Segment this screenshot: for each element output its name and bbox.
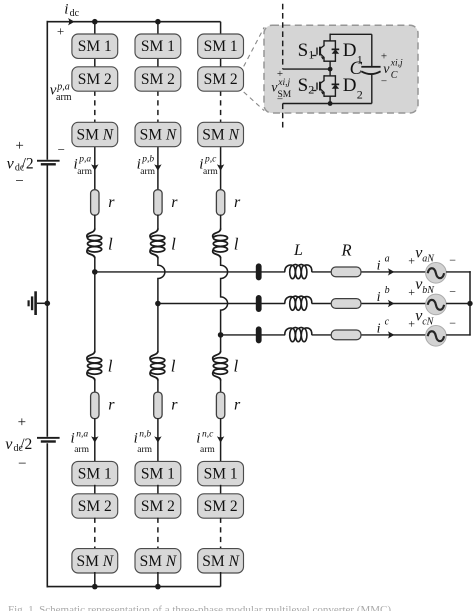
wire S2 bottom to SM minus — [329, 96, 331, 104]
current arrow i^c — [388, 331, 395, 338]
svg-text:SM 2: SM 2 — [141, 71, 175, 88]
svg-text:i: i — [377, 258, 381, 273]
submodule SM1 lower arm a — [72, 461, 118, 485]
submodule SM1 upper arm b — [135, 34, 181, 58]
label i_arm n,b — [134, 430, 153, 455]
wire left DC rail middle segment — [46, 166, 48, 437]
svg-text:p,c: p,c — [204, 154, 217, 164]
wire bottom DC bus — [47, 586, 221, 588]
AC source v_aN — [426, 263, 447, 284]
label D2 — [343, 75, 363, 102]
AC source v_cN — [426, 326, 447, 347]
wire resistor to inductor upper arm b — [157, 215, 159, 229]
svg-text:r: r — [171, 194, 178, 211]
svg-text:+: + — [57, 23, 64, 38]
current arrow i^a — [388, 268, 395, 275]
wire upper arm b to node b with hop over phase a — [158, 258, 165, 304]
svg-text:−: − — [381, 76, 387, 88]
submodule SMN upper arm a — [72, 122, 118, 146]
svg-text:r: r — [108, 397, 115, 414]
submodule SM2 upper arm c — [198, 67, 244, 91]
inset submodule detail box — [264, 25, 418, 113]
wire dashed SM2-SMN upper arm a — [94, 91, 96, 124]
submodule SMN lower arm b — [135, 549, 181, 573]
svg-text:i: i — [64, 2, 68, 18]
svg-text:/2: /2 — [20, 436, 32, 453]
svg-text:−: − — [449, 316, 456, 330]
wire SM1-SM2 upper arm b — [157, 57, 159, 67]
wire inductor to node a upper arm a — [94, 258, 96, 272]
inductor l upper arm c — [213, 229, 228, 259]
junction SM bottom — [328, 101, 333, 106]
transistor S2 with diode D2 — [312, 75, 339, 97]
label i^a — [377, 254, 390, 274]
wire dashed SM2-SMN lower arm b — [157, 518, 159, 550]
wire right AC rail — [469, 271, 471, 336]
svg-text:i: i — [134, 430, 138, 446]
resistor r lower arm b — [154, 392, 162, 419]
svg-text:+: + — [408, 316, 415, 330]
wire phase b to right rail — [446, 303, 471, 305]
svg-text:i: i — [377, 321, 381, 336]
svg-text:L: L — [293, 242, 303, 259]
svg-text:l: l — [108, 234, 113, 253]
svg-text:−: − — [58, 142, 65, 157]
wire SMN to bottom bus lower arm c — [220, 572, 222, 587]
svg-text:arm: arm — [140, 167, 155, 177]
resistor r lower arm a — [91, 392, 99, 419]
current arrow i_arm upper a — [91, 164, 98, 171]
wire capacitor top rail — [330, 33, 372, 35]
svg-text:a: a — [385, 254, 390, 265]
svg-text:S: S — [298, 75, 309, 96]
junction SM midpoint — [328, 67, 333, 72]
wire phase b line left part — [158, 303, 285, 305]
svg-text:1: 1 — [308, 48, 314, 62]
svg-text:n,c: n,c — [202, 430, 214, 440]
wire phase b line middle part — [312, 303, 427, 305]
transistor S1 with diode D1 — [312, 40, 339, 62]
svg-text:arm: arm — [203, 167, 218, 177]
svg-text:arm: arm — [137, 445, 152, 455]
submodule SM1 lower arm c — [198, 461, 244, 485]
wire node to inductor lower arm c — [220, 335, 222, 351]
callout dashed line upper — [244, 27, 265, 66]
resistor R phase b — [331, 299, 361, 309]
svg-text:+: + — [381, 50, 387, 62]
wire resistor to SM1 lower arm b with arrow — [157, 418, 159, 462]
wire phase a line left part — [95, 271, 285, 273]
battery Vdc/2 bottom — [37, 437, 60, 443]
junction top bus phase b — [155, 19, 161, 25]
resistor R phase c — [331, 330, 361, 340]
wire resistor to inductor upper arm c — [220, 215, 222, 229]
wire SM1-SM2 lower arm a — [94, 485, 96, 495]
svg-text:R: R — [341, 241, 352, 260]
svg-text:r: r — [108, 194, 115, 211]
wire phase c line middle part — [312, 334, 427, 336]
svg-text:+: + — [408, 253, 415, 267]
wire capacitor branch lower — [371, 75, 373, 104]
wire inductor to resistor lower arm a — [94, 380, 96, 392]
wire SMN to resistor upper arm a with arrow — [94, 146, 96, 190]
wire resistor to inductor upper arm a — [94, 215, 96, 229]
svg-text:i: i — [196, 430, 200, 446]
submodule SM1 upper arm a — [72, 34, 118, 58]
svg-text:arm: arm — [74, 445, 89, 455]
terminal bar phase b — [256, 295, 262, 312]
wire dashed SM2-SMN upper arm c — [220, 91, 222, 124]
submodule SM2 upper arm b — [135, 67, 181, 91]
wire SM bottom terminal — [283, 103, 372, 105]
label v_arm p,a — [50, 82, 72, 104]
wire dashed SM2-SMN lower arm c — [220, 518, 222, 550]
svg-text:−: − — [15, 174, 23, 190]
wire capacitor branch upper — [371, 34, 373, 66]
svg-text:−: − — [449, 253, 456, 267]
wire phase c to right rail — [446, 334, 471, 336]
inductor l lower arm a — [87, 351, 102, 381]
svg-text:SM 2: SM 2 — [204, 71, 238, 88]
submodule SM2 lower arm a — [72, 494, 118, 518]
wire SMN to resistor upper arm b with arrow — [157, 146, 159, 190]
label S2 — [298, 75, 315, 97]
svg-text:D: D — [343, 40, 357, 61]
resistor r upper arm a — [91, 190, 99, 216]
ground symbol — [28, 291, 48, 315]
wire SM1-SM2 lower arm c — [220, 485, 222, 495]
callout dashed line lower — [244, 92, 265, 111]
label i^b — [377, 285, 390, 305]
wire SM1-SM2 upper arm c — [220, 57, 222, 67]
svg-text:+: + — [408, 285, 415, 299]
svg-text:SM 2: SM 2 — [141, 498, 175, 515]
terminal bar phase a — [256, 263, 262, 280]
svg-text:/2: /2 — [22, 155, 34, 172]
wire S1 top to rail — [329, 34, 331, 42]
wire left DC rail upper segment — [46, 21, 48, 160]
svg-text:SM N: SM N — [76, 553, 114, 570]
node phase a junction — [92, 269, 98, 275]
label S1 — [298, 40, 315, 62]
svg-text:SM N: SM N — [76, 127, 114, 144]
svg-text:l: l — [234, 234, 239, 253]
wire inductor to resistor lower arm b — [157, 380, 159, 392]
label v_SM xi,j — [271, 78, 291, 100]
wire SMN to bottom bus lower arm b — [157, 572, 159, 587]
wire top DC bus — [47, 21, 221, 23]
svg-text:+: + — [18, 414, 26, 430]
svg-text:SM N: SM N — [140, 553, 178, 570]
inductor l lower arm b — [150, 351, 165, 381]
resistor R phase a — [331, 267, 361, 277]
svg-text:SM 1: SM 1 — [204, 38, 238, 55]
current arrow i_arm lower c — [217, 436, 224, 443]
svg-text:p,a: p,a — [78, 154, 91, 164]
svg-text:SM N: SM N — [202, 127, 240, 144]
svg-text:l: l — [171, 357, 176, 376]
svg-text:SM 1: SM 1 — [141, 38, 175, 55]
wire SM1-SM2 upper arm a — [94, 57, 96, 67]
svg-text:S: S — [298, 40, 309, 61]
svg-text:2: 2 — [308, 83, 314, 97]
svg-text:SM 2: SM 2 — [78, 71, 112, 88]
wire phase a line middle part — [312, 271, 427, 273]
wire dashed SM2-SMN lower arm a — [94, 518, 96, 550]
svg-text:SM 1: SM 1 — [78, 466, 112, 483]
wire SM top terminal — [283, 68, 330, 70]
node phase b junction — [155, 301, 161, 307]
arm wire dashed above SM terminal — [282, 4, 284, 69]
svg-text:SM 1: SM 1 — [78, 38, 112, 55]
svg-text:l: l — [234, 357, 239, 376]
label i_arm p,c — [199, 154, 218, 177]
label i_arm n,c — [196, 430, 215, 455]
wire phase c line left part — [221, 334, 286, 336]
inductor L phase b — [285, 296, 312, 310]
svg-text:−: − — [277, 94, 283, 106]
terminal bar phase c — [256, 326, 262, 343]
wire top bus to SM1 upper arm a — [94, 22, 96, 35]
label v_C xi,j — [383, 58, 403, 81]
svg-text:xi,j: xi,j — [277, 78, 290, 88]
label i_dc — [64, 2, 79, 20]
svg-text:b: b — [385, 285, 390, 296]
svg-text:2: 2 — [357, 88, 363, 102]
wire dashed SM2-SMN upper arm b — [157, 91, 159, 124]
wire SMN to bottom bus lower arm a — [94, 572, 96, 587]
svg-text:c: c — [385, 317, 390, 328]
capacitor C plates — [361, 66, 380, 74]
label i_arm n,a — [71, 430, 90, 455]
inductor L phase a — [285, 264, 312, 278]
svg-text:r: r — [171, 397, 178, 414]
inductor L phase c — [285, 327, 312, 341]
label v_cN — [415, 308, 434, 328]
svg-text:SM 1: SM 1 — [204, 466, 238, 483]
svg-text:r: r — [234, 194, 241, 211]
svg-text:r: r — [234, 397, 241, 414]
svg-text:C: C — [350, 59, 363, 79]
arm wire dashed below SM terminal — [282, 104, 284, 131]
svg-text:Fig. 1. Schematic representa: Fig. 1. Schematic representation of a th… — [8, 604, 394, 611]
svg-text:SM N: SM N — [140, 127, 178, 144]
svg-text:+: + — [15, 138, 23, 154]
svg-text:xi,j: xi,j — [390, 58, 403, 68]
wire resistor to SM1 lower arm c with arrow — [220, 418, 222, 462]
svg-text:p,b: p,b — [141, 154, 154, 164]
wire top bus to SM1 upper arm c — [220, 22, 222, 35]
svg-text:n,b: n,b — [139, 430, 151, 440]
label v_dc/2 top — [7, 155, 34, 173]
junction right rail node N — [467, 301, 472, 306]
svg-text:l: l — [171, 234, 176, 253]
junction bottom bus phase b — [155, 584, 161, 590]
submodule SM2 lower arm b — [135, 494, 181, 518]
wire top bus to SM1 upper arm b — [157, 22, 159, 35]
label v_dc/2 bottom — [5, 436, 32, 454]
svg-text:arm: arm — [77, 167, 92, 177]
AC source v_bN — [426, 294, 447, 315]
submodule SMN lower arm c — [198, 549, 244, 573]
node phase c junction — [218, 332, 224, 338]
wire phase a to right rail — [446, 271, 471, 273]
wire node to inductor lower arm b — [157, 304, 159, 352]
submodule SMN upper arm c — [198, 122, 244, 146]
svg-text:i: i — [377, 290, 381, 305]
current arrow i_arm lower a — [91, 436, 98, 443]
svg-text:l: l — [108, 357, 113, 376]
wire SM1-SM2 lower arm b — [157, 485, 159, 495]
wire upper arm c to node c with hops over phases a and b — [221, 258, 228, 335]
current arrow i_dc — [68, 18, 75, 25]
resistor r upper arm c — [216, 190, 224, 216]
submodule SM2 lower arm c — [198, 494, 244, 518]
inductor l upper arm a — [87, 229, 102, 259]
svg-text:−: − — [449, 285, 456, 299]
svg-text:arm: arm — [200, 445, 215, 455]
svg-text:v: v — [7, 155, 15, 172]
inductor l upper arm b — [150, 229, 165, 259]
label v_aN — [415, 245, 435, 265]
svg-text:p,a: p,a — [56, 82, 70, 93]
wire left DC rail lower segment — [46, 443, 48, 587]
submodule SMN lower arm a — [72, 549, 118, 573]
current arrow i_arm upper c — [217, 164, 224, 171]
svg-text:SM 2: SM 2 — [78, 498, 112, 515]
wire node to inductor lower arm a — [94, 272, 96, 351]
junction top bus phase a — [92, 19, 98, 25]
label i_arm p,a — [74, 154, 93, 177]
current arrow i^b — [388, 300, 395, 307]
svg-text:SM 1: SM 1 — [141, 466, 175, 483]
wire S1 bottom to midpoint — [329, 61, 331, 76]
wire inductor to resistor lower arm c — [220, 380, 222, 392]
battery Vdc/2 top — [37, 160, 60, 166]
svg-text:v: v — [383, 62, 390, 77]
submodule SMN upper arm b — [135, 122, 181, 146]
svg-text:n,a: n,a — [76, 430, 88, 440]
svg-text:i: i — [71, 430, 75, 446]
label i_arm p,b — [137, 154, 156, 177]
svg-text:SM N: SM N — [202, 553, 240, 570]
svg-text:C: C — [391, 70, 398, 81]
svg-text:arm: arm — [56, 92, 72, 103]
label v_bN — [415, 276, 435, 296]
label i^c — [377, 317, 390, 337]
inductor l lower arm c — [213, 351, 228, 381]
current arrow i_arm upper b — [154, 164, 161, 171]
current arrow i_arm lower b — [154, 436, 161, 443]
submodule SM2 upper arm a — [72, 67, 118, 91]
submodule SM1 upper arm c — [198, 34, 244, 58]
resistor r upper arm b — [154, 190, 162, 216]
wire resistor to SM1 lower arm a with arrow — [94, 418, 96, 462]
label D1 — [343, 40, 363, 67]
svg-text:dc: dc — [70, 8, 80, 19]
junction bottom bus phase a — [92, 584, 98, 590]
svg-text:SM 2: SM 2 — [204, 498, 238, 515]
svg-text:v: v — [5, 436, 13, 453]
resistor r lower arm c — [216, 392, 224, 419]
junction ground on rail — [45, 301, 51, 307]
svg-text:−: − — [18, 456, 26, 472]
wire SMN to resistor upper arm c with arrow — [220, 146, 222, 190]
submodule SM1 lower arm b — [135, 461, 181, 485]
